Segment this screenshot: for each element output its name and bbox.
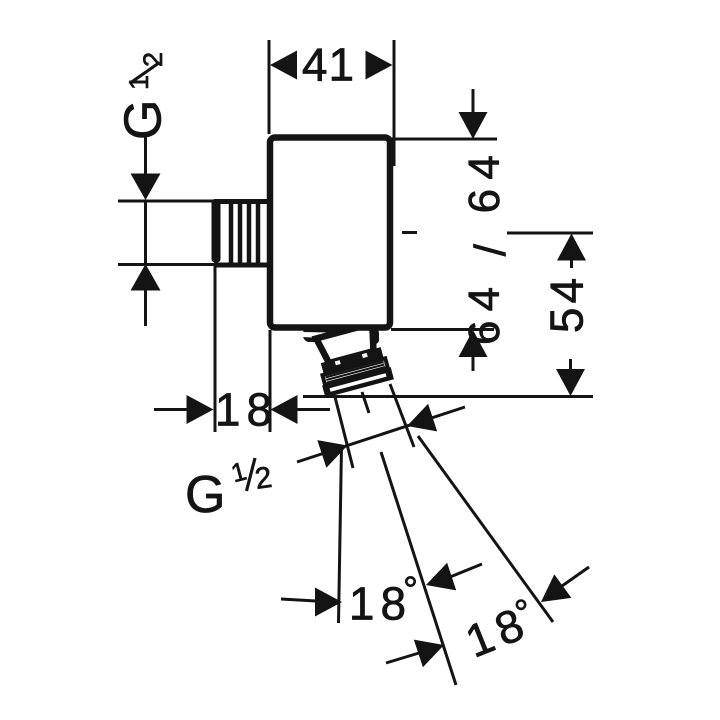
outlet G1/2 dim line <box>297 407 465 462</box>
arrow 18 right <box>271 395 298 424</box>
svg-text:2: 2 <box>138 52 168 67</box>
svg-text:54: 54 <box>541 274 593 333</box>
extension line right of 18 dim <box>269 330 272 432</box>
svg-text:64 / 64: 64 / 64 <box>460 146 515 345</box>
arrow angle on vertical line <box>315 588 342 617</box>
svg-text:18: 18 <box>215 384 278 436</box>
ref line top of 54 dim <box>507 232 593 235</box>
arrow 41 left <box>270 51 297 80</box>
label 18deg rotated <box>458 594 540 668</box>
leader of angle arrow lower on 18deg line <box>386 653 419 663</box>
ref line top of nipple G1/2 <box>118 200 215 203</box>
arrow 18 left <box>187 395 214 424</box>
outlet thread stub right <box>390 384 414 447</box>
leader left of 18 dim <box>154 408 188 411</box>
svg-text:41: 41 <box>302 39 355 91</box>
tail below 54 top arrow <box>570 260 573 268</box>
leader right of 18 dim <box>296 408 330 411</box>
arrow outlet dim lower-left <box>317 440 347 468</box>
arrow outlet dim upper-right <box>407 404 437 432</box>
white gap between plate edge and collar hook <box>302 332 330 338</box>
extension line left of 18 dim <box>214 264 217 432</box>
arrow angle upper on 18deg line <box>426 563 456 591</box>
nozzle bottom band <box>322 367 394 397</box>
ref line bottom of nipple G1/2 <box>118 263 215 266</box>
leader of angle arrow on 36deg line <box>562 567 589 586</box>
ref line bottom of 54 dim (long outlet line) <box>303 395 593 398</box>
outlet thread stub middle <box>362 392 369 413</box>
arrow angle lower on 18deg line <box>414 640 444 668</box>
ref line top of 64/64 dim <box>391 138 497 141</box>
degree circle of upright 18deg <box>406 577 414 585</box>
svg-text:18: 18 <box>349 578 412 630</box>
arrow angle on 36deg line <box>541 574 571 602</box>
arrow 64/64 bottom <box>459 330 488 357</box>
nozzle collar (ball joint flange) <box>303 327 379 342</box>
mid tick of 64/64 dim <box>402 231 417 234</box>
extension line left of 41 dim <box>268 40 271 134</box>
dim line vertical G1/2 nipple <box>144 137 147 175</box>
collar right ear <box>366 331 379 344</box>
nipple thread lines <box>231 203 258 263</box>
tail above 54 bottom arrow <box>569 359 572 370</box>
arrow G1/2 nipple up <box>131 264 161 291</box>
svg-text:G: G <box>185 466 225 524</box>
outlet thread stub left <box>335 397 353 468</box>
arrow 64/64 top <box>459 112 488 139</box>
nozzle group rotated 15deg <box>310 322 394 398</box>
ref line bottom of 64/64 dim <box>391 328 494 331</box>
nipple left cap <box>212 199 221 263</box>
arrow G1/2 nipple down <box>131 174 161 201</box>
nozzle ring notches <box>335 360 341 365</box>
fan line 36deg <box>418 436 553 622</box>
nozzle bottom band white stripe <box>330 373 387 391</box>
arrow 54 bottom <box>556 369 585 396</box>
nozzle cone <box>316 323 379 364</box>
fan line vertical <box>339 446 342 623</box>
nipple threaded inlet body <box>212 199 271 265</box>
wall plate <box>270 138 390 328</box>
nozzle knurl lines <box>326 362 385 383</box>
fan line 18deg <box>381 452 456 685</box>
leader of angle arrow on vertical line <box>281 599 316 601</box>
arrow 41 right <box>366 51 393 80</box>
tail below 64/64 bottom arrow <box>472 357 475 371</box>
nozzle knurl band <box>322 358 387 384</box>
tail above 64/64 top arrow <box>472 89 475 113</box>
nozzle ring band <box>321 347 384 375</box>
svg-text:G: G <box>115 100 173 140</box>
extension line right of 41 dim <box>393 40 396 166</box>
leader of angle arrow upper on 18deg line <box>450 564 482 577</box>
arrow 54 top <box>557 234 586 261</box>
